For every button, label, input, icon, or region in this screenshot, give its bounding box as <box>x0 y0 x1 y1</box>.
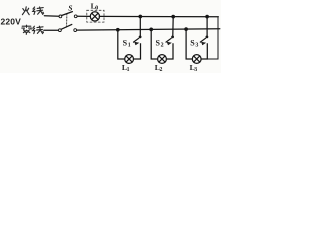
switch S3 top terminal dot <box>206 36 209 39</box>
label 火线 (live wire) <box>22 7 29 15</box>
junction dot neutral tap branch2 <box>149 28 153 32</box>
dashed box around L0 <box>87 10 104 22</box>
svg-text:1: 1 <box>128 42 131 48</box>
switch S2 bottom jaw <box>167 42 171 45</box>
wire live rail from L0 to right edge <box>99 15 218 17</box>
label L3 <box>190 63 198 73</box>
junction dot neutral tap branch3 <box>184 27 188 31</box>
label L0 <box>91 1 99 11</box>
lamp L0 <box>90 12 99 21</box>
branch 1 : wire left vertical and bottom run <box>118 30 125 59</box>
junction dot live tap branch1 <box>138 15 142 19</box>
branch 3 : wire left vertical and bottom run <box>186 29 192 59</box>
branch 2 : wire left vertical and bottom run <box>151 29 158 59</box>
wire live between S and L0 box <box>77 15 90 17</box>
wire live-left from 火线 to switch S <box>44 15 59 18</box>
svg-text:3: 3 <box>194 67 197 73</box>
label S2 <box>156 39 164 49</box>
branch 2 : switch vertical lower <box>166 43 173 59</box>
lamp L1 <box>125 55 134 64</box>
switch S3 blade <box>200 38 205 42</box>
switch S1 blade <box>134 38 139 42</box>
switch S2 blade <box>166 38 171 42</box>
switch S2 top terminal dot <box>171 36 174 39</box>
switch S live pole terminal right <box>74 15 77 18</box>
wire neutral rail from S to right edge <box>77 29 220 30</box>
switch S neutral pole blade <box>61 24 72 29</box>
switch S gang link (dashed) <box>66 14 68 28</box>
svg-text:3: 3 <box>195 42 198 48</box>
junction dot neutral tap branch1 <box>116 28 120 32</box>
label L2 <box>155 63 163 73</box>
junction dot live tap branch2 <box>171 15 175 19</box>
branch 2 : switch vertical upper <box>172 17 174 36</box>
branch 3 : switch vertical lower <box>201 43 207 59</box>
switch S neutral pole terminal right <box>74 29 77 32</box>
label S1 <box>123 39 131 49</box>
svg-text:220V: 220V <box>1 17 22 27</box>
label 零线 (neutral wire) <box>22 25 31 34</box>
switch S1 top terminal dot <box>139 36 142 39</box>
branch 3 : switch vertical upper <box>206 17 208 36</box>
switch S live pole terminal left <box>59 15 62 18</box>
switch S neutral pole terminal left <box>59 29 62 32</box>
label L1 <box>122 63 130 73</box>
label S <box>68 3 72 12</box>
junction dot live tap branch3 <box>205 15 209 19</box>
switch S1 bottom jaw <box>135 42 139 45</box>
svg-text:2: 2 <box>161 42 164 48</box>
label S3 <box>190 39 198 49</box>
lamp L3 <box>192 55 201 64</box>
lamp L2 <box>158 55 167 64</box>
wire right-edge return from live rail corner down to branch 3 bottom run <box>207 17 218 59</box>
svg-text:0: 0 <box>95 5 98 11</box>
switch S3 bottom jaw <box>202 42 206 45</box>
svg-text:1: 1 <box>127 67 130 73</box>
svg-text:2: 2 <box>160 67 163 73</box>
wire neutral-left from 零线 to switch S <box>44 29 59 31</box>
svg-text:S: S <box>68 3 72 12</box>
branch 1 : switch vertical lower to bottom run <box>134 43 141 59</box>
switch S live pole blade <box>62 12 73 16</box>
branch 1 : switch vertical upper (from live tap, crossing neutral) <box>139 17 141 36</box>
label 220V <box>1 17 22 27</box>
